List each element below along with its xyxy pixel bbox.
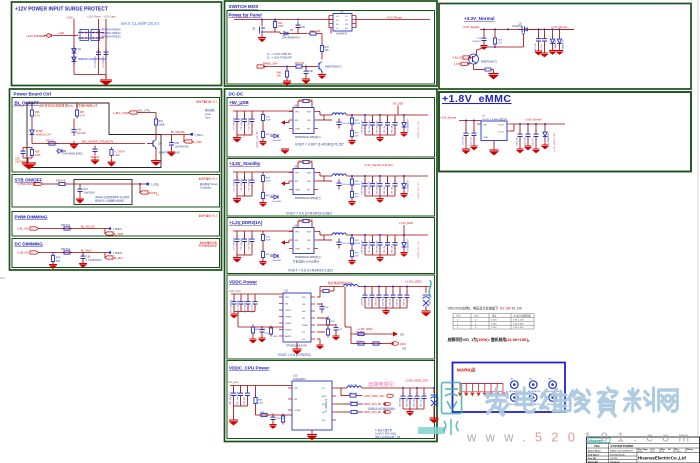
hole circle M6 bbox=[549, 394, 557, 402]
junction bbox=[139, 183, 141, 185]
svg-text:CB5 22uF: CB5 22uF bbox=[407, 397, 409, 407]
ground C58 bbox=[168, 149, 176, 157]
resistor R63 bbox=[47, 142, 58, 145]
Hisense logo cell bbox=[588, 438, 610, 443]
svg-text:R45 10K: R45 10K bbox=[295, 62, 305, 65]
svg-text:4.7uF(50V0%): 4.7uF(50V0%) bbox=[86, 259, 102, 262]
hole circle M4 bbox=[511, 394, 519, 402]
box Power Board Ctrl bbox=[10, 89, 222, 270]
watermark char 家 bbox=[486, 389, 508, 415]
title SWITCH MOS bbox=[229, 4, 259, 9]
svg-text:CA4 104: CA4 104 bbox=[403, 297, 406, 306]
wire row2 bbox=[265, 31, 280, 33]
input caps bbox=[234, 386, 248, 392]
svg-text:Tone: Tone bbox=[205, 117, 211, 120]
svg-text:1N4148WS4734: 1N4148WS4734 bbox=[282, 37, 300, 40]
svg-text:LD1117-1.8 SAG7(排针)B: LD1117-1.8 SAG7(排针)B bbox=[482, 117, 507, 121]
watermark logo icon bbox=[442, 383, 462, 436]
svg-text:2_BKL_CTRL: 2_BKL_CTRL bbox=[113, 112, 129, 115]
title VDDC_CPU Power bbox=[229, 366, 270, 371]
svg-text:D4 SMAZ2V4: D4 SMAZ2V4 bbox=[547, 132, 550, 145]
ground big bbox=[488, 70, 499, 80]
output caps cluster bbox=[539, 29, 560, 37]
wire bbox=[38, 252, 110, 254]
svg-text:PWM DIMMING: PWM DIMMING bbox=[15, 215, 48, 220]
svg-text:CA0 22uF: CA0 22uF bbox=[375, 296, 378, 306]
zener D2 bbox=[72, 55, 77, 66]
main wire row bbox=[32, 143, 145, 145]
tantalum far right bbox=[433, 388, 435, 393]
svg-text:Q5: Q5 bbox=[252, 28, 256, 31]
title +1.2V DDR3(1A) bbox=[229, 220, 263, 225]
resistor R68 bbox=[62, 227, 73, 230]
title block frame bbox=[587, 437, 700, 463]
wire bbox=[137, 112, 156, 114]
svg-text:BKL_ON/OFF_CTRL(BLTR): BKL_ON/OFF_CTRL(BLTR) bbox=[82, 141, 114, 144]
svg-text:CB2 104: CB2 104 bbox=[244, 396, 246, 405]
svg-text:SRF0504-470M/2A: SRF0504-470M/2A bbox=[101, 32, 121, 35]
svg-text:U6: U6 bbox=[340, 10, 344, 14]
svg-text:C28 10uF: C28 10uF bbox=[517, 136, 519, 146]
svg-text:PG: PG bbox=[322, 420, 325, 422]
svg-text:Soft Name: Soft Name bbox=[588, 453, 600, 456]
capacitor C67 bbox=[79, 184, 81, 187]
svg-text:VIN: VIN bbox=[285, 297, 289, 299]
bottom wire rail bbox=[74, 74, 106, 76]
IC ground bbox=[489, 141, 499, 156]
svg-text:AGND: AGND bbox=[285, 335, 292, 338]
svg-text:R68 510: R68 510 bbox=[61, 224, 71, 227]
tantalum cap far right bbox=[425, 287, 427, 294]
svg-text:4.7K: 4.7K bbox=[35, 115, 40, 118]
svg-text:12V_Input: 12V_Input bbox=[13, 105, 24, 108]
wire to Q4 bbox=[321, 54, 323, 60]
svg-text:CA2 22uF: CA2 22uF bbox=[389, 296, 392, 306]
sub-box STB ON/OFF bbox=[12, 175, 220, 208]
svg-text:C26 10uF: C26 10uF bbox=[463, 135, 465, 145]
title +5V_USB bbox=[229, 100, 249, 105]
svg-text:JR1: JR1 bbox=[400, 334, 405, 337]
watermark char 网 bbox=[659, 390, 678, 411]
svg-text:BL_ON/OFF: BL_ON/OFF bbox=[171, 131, 185, 134]
svg-text:VOUT = 0.6 (1+R1/R2): VOUT = 0.6 (1+R1/R2) bbox=[278, 353, 311, 357]
svg-text:CA3 104: CA3 104 bbox=[396, 297, 399, 306]
resistor R45 bbox=[294, 65, 305, 68]
output wire bbox=[511, 123, 565, 125]
output caps bank bbox=[365, 287, 407, 294]
ground input caps bbox=[230, 312, 238, 319]
ground under C61 bbox=[70, 141, 78, 149]
npn Q2 with circle bbox=[469, 54, 479, 64]
svg-text:Power Board Ctrl: Power Board Ctrl bbox=[14, 92, 52, 97]
svg-text:R1 2R4: R1 2R4 bbox=[356, 332, 364, 334]
svg-text:C91 10uF/25V: C91 10uF/25V bbox=[238, 299, 240, 313]
sub-box VDDC Power bbox=[227, 275, 435, 359]
svg-text:VOUT = 0.6 (1+R1/R2)=1.822: VOUT = 0.6 (1+R1/R2)=1.822 bbox=[288, 269, 333, 273]
box +1.8V eMMC bbox=[439, 92, 691, 172]
grid lines bbox=[587, 443, 700, 463]
svg-text:+1.2V_DDR: +1.2V_DDR bbox=[399, 221, 413, 225]
resistor R59 bbox=[110, 147, 113, 158]
sub-box PWM DIMMING bbox=[12, 212, 220, 237]
svg-text:提供信号上电避免开机闪烁!: 提供信号上电避免开机闪烁! bbox=[95, 199, 125, 203]
svg-text:R24: R24 bbox=[498, 40, 503, 42]
svg-text:L5 2.2uH: L5 2.2uH bbox=[344, 284, 353, 286]
svg-text:1 of 8: 1 of 8 bbox=[675, 451, 681, 453]
ground bbox=[108, 159, 116, 167]
net arrow BL_ONF bbox=[183, 135, 185, 142]
svg-text:C27 104: C27 104 bbox=[471, 137, 473, 145]
sub-box BL ON/OFF bbox=[12, 98, 220, 173]
svg-text:1 P0902: 1 P0902 bbox=[113, 252, 123, 255]
svg-text:L6 4.7uH: L6 4.7uH bbox=[348, 385, 357, 387]
svg-text:VID设计/装载范围: VID设计/装载范围 bbox=[513, 314, 530, 318]
svg-text:C97: C97 bbox=[339, 329, 344, 331]
svg-text:+12V_Input: +12V_Input bbox=[229, 290, 242, 293]
sheet right border bbox=[697, 0, 699, 463]
title +3.3V_Normal bbox=[464, 16, 495, 21]
svg-text:BST: BST bbox=[322, 396, 327, 398]
svg-text:PGND: PGND bbox=[285, 330, 292, 332]
wire bbox=[31, 138, 33, 144]
svg-text:VIN: VIN bbox=[294, 388, 298, 390]
wire out bbox=[531, 28, 574, 30]
capacitor C56 bbox=[21, 148, 26, 158]
hole circle M1 bbox=[511, 381, 519, 389]
svg-text:请外界在在高调处理 跟Quit，车引箱针漏在上午: 请外界在在高调处理 跟Quit，车引箱针漏在上午 bbox=[39, 104, 98, 108]
ground bbox=[100, 75, 113, 86]
svg-text:+3.3V_Standby: +3.3V_Standby bbox=[463, 26, 481, 29]
buck regulator +3.3V_Standby bbox=[231, 160, 429, 207]
svg-text:D4: D4 bbox=[345, 28, 349, 30]
resistor R24 bbox=[494, 29, 496, 36]
svg-text:FB: FB bbox=[302, 318, 305, 320]
svg-text:C45: C45 bbox=[301, 26, 306, 29]
svg-text:BL_VADJ: BL_VADJ bbox=[81, 250, 92, 253]
grounds under IC bbox=[292, 342, 302, 355]
diode D5 bbox=[284, 32, 288, 36]
sub-box +5V_USB bbox=[227, 98, 435, 158]
mid rows bbox=[336, 403, 349, 405]
svg-text:V501/V301控制，电压设计标准如下: R1 10K B: V501/V301控制，电压设计标准如下: R1 10K B1 10K bbox=[448, 306, 523, 311]
wire 12V rail bbox=[31, 103, 33, 108]
svg-text:RSAG7.820.5833/ROH: RSAG7.820.5833/ROH bbox=[610, 449, 633, 452]
blue note bottom right bbox=[375, 428, 401, 439]
capacitor C46 bbox=[305, 67, 307, 70]
wire bbox=[155, 128, 157, 141]
lower cluster: R83 C94 R84 bbox=[237, 312, 239, 328]
svg-text:10K: 10K bbox=[498, 43, 502, 45]
title Power for Panel bbox=[229, 13, 262, 18]
svg-text:+12V_Power: +12V_Power bbox=[87, 16, 101, 19]
svg-text:D5: D5 bbox=[290, 29, 294, 32]
box SWITCH MOS bbox=[225, 1, 438, 86]
svg-text:10u/16V: 10u/16V bbox=[77, 132, 86, 135]
svg-text:3_BL_ADJ: 3_BL_ADJ bbox=[17, 228, 30, 231]
svg-text:VDDC Power: VDDC Power bbox=[229, 280, 257, 285]
svg-text:1.10V: 1.10V bbox=[491, 327, 497, 329]
svg-text:+1.05V_VDDC_CPU: +1.05V_VDDC_CPU bbox=[363, 396, 385, 398]
BL ON/OFF note blue right bbox=[205, 108, 215, 120]
svg-text:S3: S3 bbox=[336, 24, 339, 26]
svg-text:M2: M2 bbox=[530, 379, 534, 381]
svg-text:D2: D2 bbox=[78, 49, 82, 51]
svg-text:+1.05V_VDDC_CPU: +1.05V_VDDC_CPU bbox=[405, 380, 428, 383]
transistor Q4 bbox=[319, 62, 323, 72]
svg-text:MMBT3904(LT): MMBT3904(LT) bbox=[325, 66, 342, 69]
watermark char 电 bbox=[517, 388, 535, 412]
svg-text:AO4407A: AO4407A bbox=[336, 32, 348, 36]
svg-text:100K: 100K bbox=[278, 25, 284, 28]
svg-text:R69 510: R69 510 bbox=[61, 248, 71, 251]
output caps bbox=[520, 124, 536, 132]
svg-text:0.1uF+C POLY布局: 0.1uF+C POLY布局 bbox=[375, 432, 396, 436]
wire output bbox=[356, 19, 430, 21]
MARK box border bbox=[453, 363, 566, 413]
svg-text:SW: SW bbox=[302, 297, 306, 299]
svg-text:C98 22uF: C98 22uF bbox=[362, 296, 364, 306]
watermark char 料 bbox=[625, 388, 654, 411]
svg-text:BL_ADJ1: BL_ADJ1 bbox=[113, 233, 124, 236]
svg-text:SW: SW bbox=[302, 304, 306, 306]
svg-text:Q: - = 12V9 TURN OFF: Q: - = 12V9 TURN OFF bbox=[267, 57, 293, 60]
lower cluster bbox=[255, 406, 257, 415]
junction port bbox=[109, 227, 112, 230]
capacitor C69 bbox=[82, 253, 84, 255]
hole circle M2 bbox=[529, 381, 537, 389]
svg-text:+1.15V_VDDC: +1.15V_VDDC bbox=[405, 280, 422, 284]
svg-text:10K: 10K bbox=[277, 75, 282, 78]
svg-text:HisenseElectricCo.,Ltd: HisenseElectricCo.,Ltd bbox=[638, 456, 686, 461]
IC U5 LDO bbox=[481, 121, 507, 141]
IC U6 AO4407A bbox=[329, 10, 356, 36]
port 2_BKL1 bbox=[191, 133, 194, 136]
blue note bbox=[267, 53, 293, 60]
svg-text:STB ON/OFF: STB ON/OFF bbox=[15, 178, 43, 183]
svg-text:VCC Panel: VCC Panel bbox=[387, 16, 402, 20]
input caps C90-C93 bbox=[234, 294, 255, 300]
svg-text:C29 10uF: C29 10uF bbox=[525, 136, 527, 146]
svg-text:D1: D1 bbox=[345, 16, 349, 18]
title DC DIMMING bbox=[15, 242, 44, 247]
svg-text:C30 104: C30 104 bbox=[533, 138, 535, 146]
wire bbox=[38, 228, 110, 230]
svg-text:SMAZ15-13-F: SMAZ15-13-F bbox=[36, 134, 52, 137]
mosfet Q5 bbox=[261, 20, 263, 27]
svg-text:VOUT: VOUT bbox=[498, 132, 505, 134]
svg-text:更改不重包 V1.1: 更改不重包 V1.1 bbox=[199, 214, 218, 218]
buck regulator +5V_USB bbox=[231, 99, 429, 146]
svg-text:+12V_Input: +12V_Input bbox=[227, 381, 240, 384]
svg-text:AVDJ: AVDJ bbox=[400, 343, 407, 346]
svg-text:PANEL_ONF: PANEL_ONF bbox=[263, 63, 278, 66]
svg-text:谐波大和排外电路上 NF: 谐波大和排外电路上 NF bbox=[375, 435, 401, 439]
svg-text:VDDC_CPU Power: VDDC_CPU Power bbox=[229, 366, 270, 371]
svg-text:D3: D3 bbox=[345, 24, 349, 26]
wire down to R47 bbox=[321, 34, 323, 45]
capacitor C1 bbox=[96, 49, 101, 59]
svg-text:10K: 10K bbox=[325, 49, 330, 52]
wire rail left bbox=[23, 147, 32, 149]
svg-text:C90 10uF/25V: C90 10uF/25V bbox=[231, 299, 233, 313]
watermark char 资 bbox=[598, 388, 617, 417]
svg-text:EN: EN bbox=[294, 399, 297, 401]
svg-text:SW: SW bbox=[302, 311, 306, 313]
sub-box DC DIMMING bbox=[12, 239, 220, 268]
svg-text:+12V_Input: +12V_Input bbox=[104, 16, 117, 19]
svg-text:R84: R84 bbox=[274, 336, 279, 338]
svg-text:R44 100K: R44 100K bbox=[310, 30, 321, 33]
title STB ON/OFF bbox=[15, 178, 43, 183]
svg-text:CB4 22uF: CB4 22uF bbox=[400, 397, 402, 407]
svg-text:S2: S2 bbox=[336, 20, 339, 22]
gate chain bbox=[523, 34, 525, 48]
arrow ON/OFF bbox=[139, 184, 141, 193]
svg-text:电压: 电压 bbox=[492, 314, 497, 318]
svg-text:www.520101.com: www.520101.com bbox=[466, 430, 698, 445]
capacitor C45 bbox=[296, 22, 301, 32]
svg-text:U11: U11 bbox=[284, 290, 289, 293]
svg-text:VREG: VREG bbox=[302, 325, 308, 327]
svg-text:VDDC_CPU_FB: VDDC_CPU_FB bbox=[364, 404, 381, 406]
inductor L5 bbox=[344, 285, 358, 287]
svg-text:GND: GND bbox=[483, 137, 488, 139]
capacitor C2 bbox=[104, 49, 109, 59]
capacitor C59 bbox=[93, 146, 98, 156]
resistor R57 bbox=[76, 103, 78, 108]
svg-text:100K: 100K bbox=[258, 403, 264, 405]
svg-text:R90 10K: R90 10K bbox=[349, 393, 358, 395]
title VDDC Power bbox=[229, 280, 257, 285]
sheet left tick bbox=[0, 277, 5, 279]
resistor R43 bbox=[273, 19, 276, 30]
svg-text:DC DIMMING: DC DIMMING bbox=[15, 242, 44, 247]
svg-text:CB7 104: CB7 104 bbox=[421, 398, 423, 407]
output caps bank bbox=[403, 388, 424, 394]
wire vertical left bbox=[73, 19, 75, 75]
teal highlight fragment bbox=[418, 427, 445, 434]
svg-text:Title: Title bbox=[594, 444, 600, 448]
title PWM DIMMING bbox=[15, 215, 48, 220]
svg-text:C99 22uF: C99 22uF bbox=[369, 296, 371, 306]
resistor R70 bbox=[52, 253, 54, 255]
svg-text:更改不重包络 V1.1: 更改不重包络 V1.1 bbox=[196, 100, 217, 104]
svg-text:C94: C94 bbox=[265, 333, 270, 335]
svg-text:2017: 2017 bbox=[650, 451, 656, 453]
svg-text:4_BL_ON: 4_BL_ON bbox=[453, 57, 464, 60]
svg-text:10uF(50V50): 10uF(50V50) bbox=[175, 146, 189, 149]
svg-text:+12V_Input: +12V_Input bbox=[236, 16, 249, 19]
svg-text:BKL_CTRL: BKL_CTRL bbox=[138, 110, 151, 113]
black annotation box bbox=[27, 103, 161, 168]
output rail bbox=[358, 286, 430, 288]
svg-text:JR2: JR2 bbox=[402, 348, 407, 351]
caps in bbox=[466, 121, 474, 132]
svg-text:VOUT = 0.6 (1+R1/R2)=3.28Ω: VOUT = 0.6 (1+R1/R2)=3.28Ω bbox=[286, 212, 332, 216]
resistor R61 bbox=[154, 117, 157, 128]
svg-text:3_VB_ADJ: 3_VB_ADJ bbox=[17, 252, 30, 255]
svg-text:U5: U5 bbox=[482, 116, 486, 118]
wire main rail bbox=[234, 19, 333, 21]
svg-text:104(50V): 104(50V) bbox=[472, 41, 481, 43]
svg-text:+12V POWER INPUT SURGE PROTEC: +12V POWER INPUT SURGE PROTECT bbox=[15, 7, 108, 13]
feedback row under coil bbox=[340, 388, 342, 396]
svg-text:+1.8V_eMMC_LDO: +1.8V_eMMC_LDO bbox=[554, 133, 556, 152]
svg-text:+3.3V_Normal: +3.3V_Normal bbox=[464, 16, 495, 21]
svg-text:C19: C19 bbox=[477, 38, 482, 40]
svg-text:CB1 10uF/25V: CB1 10uF/25V bbox=[237, 391, 239, 405]
wire main bbox=[480, 28, 574, 30]
mid comps right of IC bbox=[317, 303, 322, 305]
svg-text:SS: SS bbox=[302, 339, 305, 341]
svg-text:G: G bbox=[336, 28, 338, 30]
wire through bbox=[68, 183, 141, 185]
svg-text:(Stand)主控制需要50K下拉/提供: (Stand)主控制需要50K下拉/提供 bbox=[95, 195, 130, 199]
svg-text:VID1: VID1 bbox=[456, 316, 462, 318]
svg-text:1.00V: 1.00V bbox=[491, 319, 497, 321]
svg-text:Board Name: Board Name bbox=[588, 450, 602, 452]
wire input bbox=[53, 35, 79, 37]
svg-text:+3.3V_Standby 3.3V(1A): +3.3V_Standby 3.3V(1A) bbox=[364, 163, 393, 167]
svg-text:4_STB: 4_STB bbox=[454, 63, 462, 66]
wire vertical right bbox=[105, 19, 107, 79]
IC U11 bbox=[283, 293, 311, 342]
svg-text:+1.8V_Normal: +1.8V_Normal bbox=[525, 119, 541, 122]
svg-text:2_STB1: 2_STB1 bbox=[151, 184, 160, 187]
resistor R44 horizontal bbox=[308, 32, 319, 35]
ground big bbox=[22, 163, 36, 170]
svg-text:VOUT: VOUT bbox=[498, 125, 505, 127]
svg-text:S1: S1 bbox=[336, 16, 339, 18]
grounds bbox=[283, 80, 292, 87]
svg-text:AOZ1282CI: AOZ1282CI bbox=[293, 378, 306, 381]
svg-text:TPS56528DDA-HR: TPS56528DDA-HR bbox=[286, 345, 307, 348]
svg-text:1.05V: 1.05V bbox=[491, 323, 497, 325]
svg-text:1+电容大量许用: 1+电容大量许用 bbox=[375, 428, 393, 432]
svg-text:R66 47R: R66 47R bbox=[56, 180, 66, 183]
title +3.3V_Standby bbox=[229, 161, 261, 166]
ground under IC bbox=[307, 430, 318, 440]
wire top rail bbox=[231, 293, 283, 295]
svg-text:启腾项目VID_1为(100K): 整机装用(22.6K+1: 启腾项目VID_1为(100K): 整机装用(22.6K+10K)。 bbox=[448, 337, 532, 342]
svg-text:D2: D2 bbox=[345, 20, 349, 22]
svg-text:ST: ST bbox=[156, 195, 159, 197]
capacitor C19 bbox=[483, 29, 485, 36]
svg-text:Sheet: Sheet bbox=[687, 448, 693, 451]
junction port bbox=[109, 251, 112, 254]
wire in bbox=[459, 120, 481, 122]
svg-text:TL-white(CI): TL-white(CI) bbox=[325, 399, 328, 412]
fiducial comb bbox=[460, 383, 503, 385]
svg-text:CA1 22uF: CA1 22uF bbox=[382, 296, 385, 306]
wire bbox=[42, 183, 57, 185]
transistor Q6 bbox=[147, 140, 157, 149]
ground mid bbox=[281, 149, 290, 154]
svg-text:AO3407A: AO3407A bbox=[512, 25, 523, 28]
arrow VB_ADJ bbox=[104, 253, 106, 258]
svg-text:R85: R85 bbox=[331, 321, 336, 323]
svg-text:CB0 10uF/25V: CB0 10uF/25V bbox=[230, 391, 232, 405]
hole circle M3 bbox=[549, 381, 557, 389]
svg-text:SRF0504-471M/2A: SRF0504-471M/2A bbox=[101, 36, 121, 39]
svg-text:PGND: PGND bbox=[285, 323, 292, 325]
svg-text:PG: PG bbox=[302, 332, 305, 334]
svg-text:VBST: VBST bbox=[285, 310, 291, 312]
DC DIMMING annotation bbox=[199, 241, 218, 248]
svg-text:1.02-1.08V: 1.02-1.08V bbox=[513, 323, 524, 325]
svg-text:Date: Date bbox=[638, 450, 643, 453]
resistor R88 bbox=[255, 386, 257, 397]
